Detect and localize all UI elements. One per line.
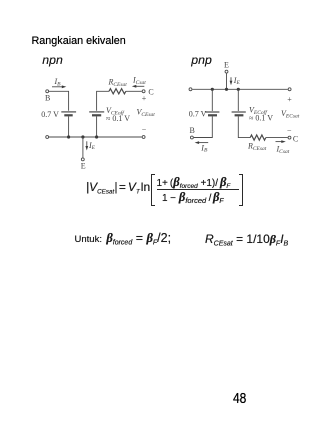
node C (pnp) terminal [288, 136, 291, 139]
resistor RCEsat (npn) zigzag [109, 89, 126, 94]
wire battery V1 to bottom rail [68, 117, 70, 138]
svg-text:0.7 V: 0.7 V [41, 110, 59, 119]
node E (pnp) terminal [225, 70, 228, 73]
junction dot battery V1 (npn) [67, 135, 70, 138]
wire B to corner [49, 91, 69, 111]
wire resistor to C [126, 90, 142, 92]
wire top rail to battery V3 (pnp) [211, 89, 213, 111]
battery V2 VCEoff (npn) short thick plate [92, 114, 101, 116]
svg-text:0.7 V: 0.7 V [189, 109, 207, 118]
label npn [42, 53, 63, 67]
svg-text:VCEsat: VCEsat [137, 108, 156, 118]
svg-text:IB: IB [54, 77, 62, 87]
battery V3 0.7V (pnp) short thick plate [208, 114, 217, 116]
battery V3 0.7V (pnp) long plate [205, 111, 219, 113]
node right bottom terminal (npn) [142, 136, 145, 139]
equation left bracket [151, 174, 155, 206]
svg-text:+: + [287, 95, 292, 104]
arrow IB (pnp) pointing left [199, 142, 209, 144]
junction dot battery V4 (pnp) [237, 88, 240, 91]
title [32, 35, 126, 47]
wire battery V4 down to resistor (pnp) [238, 117, 250, 138]
battery V4 VECoff (pnp) long plate [232, 111, 246, 113]
svg-text:E: E [81, 162, 86, 171]
svg-text:IE: IE [233, 76, 241, 86]
svg-text:IE: IE [88, 141, 96, 151]
junction dot E branch (pnp) [225, 88, 228, 91]
svg-text:IB: IB [200, 143, 208, 153]
svg-text:RCEsat: RCEsat [108, 78, 128, 88]
junction dot battery V3 (pnp) [211, 88, 214, 91]
wire battery V3 down and left to B (pnp) [194, 117, 213, 138]
arrow ICsat (pnp) pointing right [276, 141, 283, 143]
junction dot battery V2 (npn) [95, 135, 98, 138]
svg-text:ICsat: ICsat [276, 144, 290, 154]
svg-text:RCEsat: RCEsat [247, 141, 267, 151]
svg-text:B: B [45, 94, 50, 103]
svg-text:C: C [293, 134, 298, 143]
wire top rail to battery V4 (pnp) [237, 89, 239, 111]
battery V1 0.7V (npn) short thick plate [64, 114, 72, 116]
wire E branch (npn) [82, 137, 84, 158]
bottom rail wire (npn) [49, 136, 142, 138]
battery V4 VECoff (pnp) short thick plate [235, 114, 244, 116]
svg-text:−: − [142, 125, 147, 134]
battery V2 VCEoff (npn) long plate [89, 111, 104, 113]
node B (pnp) terminal [190, 136, 193, 139]
wire battery V2 to bottom rail [96, 117, 98, 138]
arrow IE (npn) pointing down [86, 141, 88, 146]
equation VCEsat : left part [86, 181, 150, 199]
equation denominator [162, 192, 224, 207]
arrow IE (pnp) pointing down [230, 77, 232, 81]
wire E down to top rail [226, 73, 228, 89]
svg-text:C: C [148, 87, 153, 96]
equation numerator [157, 177, 231, 192]
svg-text:−: − [287, 126, 292, 135]
arrow ICsat (npn) pointing left [136, 85, 145, 87]
page number [233, 390, 246, 407]
node E (npn) terminal [81, 158, 84, 161]
node C (npn) terminal [142, 90, 145, 93]
label pnp [191, 53, 212, 67]
svg-text:E: E [224, 61, 229, 70]
top rail wire (pnp) [192, 88, 287, 90]
node left bottom terminal (npn) [46, 136, 49, 139]
resistor RCEsat (pnp) zigzag [250, 135, 266, 140]
svg-text:VECsat: VECsat [281, 109, 300, 119]
arrow IB (npn) [52, 86, 63, 88]
svg-text:+: + [142, 94, 147, 103]
untuk line left [75, 233, 172, 249]
node B (npn) terminal [46, 90, 49, 93]
wire battery V2 up and right to resistor [97, 91, 109, 111]
node right top terminal (pnp) [288, 88, 291, 91]
svg-text:≈ 0.1 V: ≈ 0.1 V [106, 114, 130, 123]
wire resistor to C (pnp) [266, 137, 288, 139]
svg-text:ICsat: ICsat [132, 75, 146, 85]
node left top terminal (pnp) [189, 88, 192, 91]
junction dot E branch (npn) [81, 135, 84, 138]
svg-text:B: B [190, 126, 195, 135]
equation right bracket [239, 174, 243, 206]
svg-text:≈ 0.1 V: ≈ 0.1 V [249, 113, 273, 122]
untuk line right [205, 233, 288, 251]
battery V1 0.7V (npn) long plate [61, 111, 76, 113]
equation fraction bar [157, 189, 239, 190]
